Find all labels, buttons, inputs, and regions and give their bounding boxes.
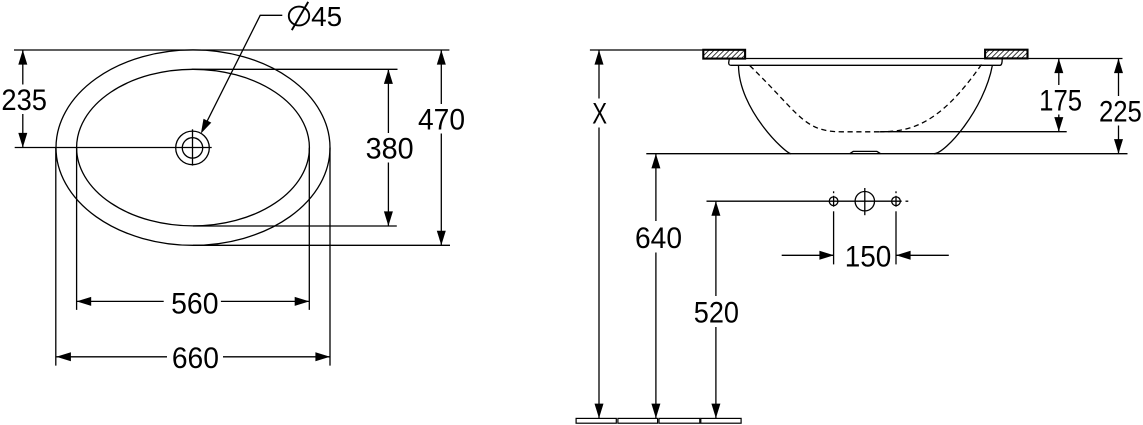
dimension 520 line [715, 201, 717, 296]
main tap hole vertical centerline [864, 188, 866, 215]
dimension 560 line [77, 300, 164, 302]
dimension 470 line [440, 50, 442, 104]
svg-text:150: 150 [845, 240, 892, 273]
380 lower extension line [193, 225, 397, 227]
tap hole right vertical centermark [895, 196, 897, 207]
diameter symbol slash [292, 2, 308, 30]
floor tile 3 [659, 418, 700, 423]
tap hole left vertical centermark [833, 196, 835, 207]
tap hole right centermark dot [895, 191, 897, 193]
countertop top line left [590, 49, 703, 51]
bowl outer wall left [739, 65, 792, 154]
dimension 380 arrows [384, 69, 393, 84]
dimension 660 line [56, 356, 167, 358]
drain hole outer circle [176, 131, 210, 165]
svg-text:560: 560 [171, 287, 218, 320]
drain boss at bowl bottom [850, 151, 881, 153]
dimension 150 left line [782, 254, 834, 256]
svg-text:175: 175 [1039, 85, 1082, 118]
175 lower datum line [881, 131, 1067, 133]
560 left extension line [76, 148, 78, 310]
dimension 380 line [387, 69, 389, 133]
svg-text:235: 235 [1, 84, 47, 117]
drain horizontal centerline right stub [193, 147, 212, 149]
dimension 235 arrows [18, 50, 27, 65]
top extension line (470/235 upper datum) [14, 49, 449, 51]
dimension 175 line [1058, 59, 1060, 86]
dimension 225 arrows [1114, 59, 1123, 74]
svg-text:225: 225 [1099, 95, 1142, 128]
basin bottom datum line (640/225 lower datum) [646, 153, 1127, 155]
svg-text:45: 45 [311, 1, 342, 32]
svg-text:380: 380 [366, 133, 414, 166]
floor tile 1 [576, 418, 616, 423]
660 left extension line [55, 148, 57, 366]
main tap hole circle [855, 192, 874, 211]
leader line for drain diameter [204, 15, 283, 128]
countertop hatch block right [985, 50, 1027, 59]
bottom extension line (470 lower datum) [193, 244, 450, 246]
tap hole centerline [707, 200, 902, 202]
dimension 560 arrows [77, 297, 92, 306]
svg-text:470: 470 [418, 104, 465, 137]
drain vertical centerline [192, 129, 194, 165]
leader arrowhead [201, 119, 211, 134]
rim top / countertop bottom line [729, 58, 1123, 60]
dimension X line [598, 50, 600, 99]
dimension 660 arrows [56, 352, 71, 361]
floor tile 2 [618, 418, 658, 423]
660 right extension line [329, 148, 331, 366]
dimension 520 arrows [711, 201, 720, 216]
tap hole right small circle [892, 197, 901, 206]
drain hole inner circle [182, 138, 202, 158]
svg-text:X: X [592, 97, 607, 130]
dimension 640 arrows [651, 154, 660, 169]
150 left extension line [833, 211, 835, 264]
svg-text:520: 520 [694, 297, 739, 330]
floor tile 4 [701, 418, 741, 423]
dimension 175 arrows [1054, 59, 1063, 74]
380 upper extension line [192, 68, 398, 70]
dimension 640 line [655, 154, 657, 221]
dimension 235 line [22, 50, 24, 85]
bowl inner surface dashed [750, 66, 879, 132]
basin outer rim ellipse [56, 50, 330, 245]
560 right extension line [308, 148, 310, 310]
bowl outer wall right [934, 65, 992, 153]
dimension 225 line [1118, 59, 1120, 97]
tap hole centerline end dash [906, 200, 909, 202]
dimension 150 arrows [819, 251, 834, 260]
countertop hatch block left [703, 50, 745, 59]
tap hole left small circle [829, 197, 838, 206]
dimension 470 arrows [437, 50, 446, 65]
dimension X arrows [595, 50, 604, 65]
150 right extension line [895, 211, 897, 264]
basin inner bowl ellipse [77, 69, 310, 226]
diameter symbol circle [289, 7, 309, 26]
svg-text:640: 640 [635, 222, 682, 255]
basin rim bottom line with rounded ends [729, 59, 1003, 66]
tap hole left centermark dot [833, 191, 835, 193]
horizontal centerline (235 lower datum) [15, 147, 193, 149]
svg-text:660: 660 [172, 342, 219, 375]
dimension 150 right line [896, 254, 949, 256]
